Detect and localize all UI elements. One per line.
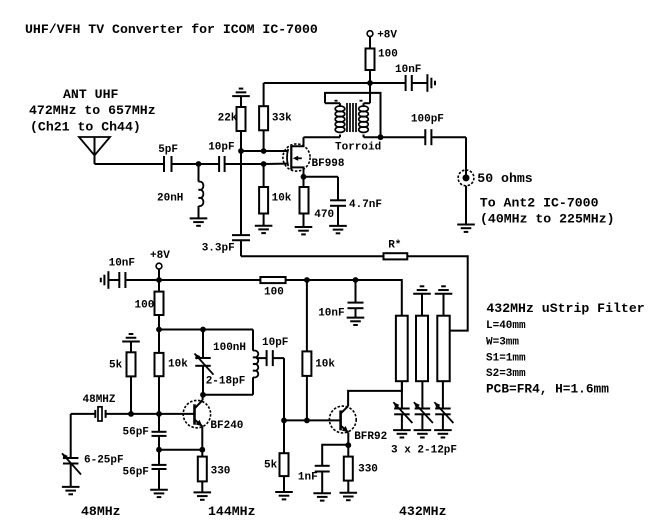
transformer secondary winding bbox=[359, 103, 370, 137]
svg-text:2-18pF: 2-18pF bbox=[206, 376, 246, 388]
wire rail to 10nF bbox=[370, 82, 406, 84]
wire R* to filter bbox=[407, 256, 467, 330]
label 144MHz bottom bbox=[208, 504, 255, 519]
svg-text:10nF: 10nF bbox=[395, 64, 421, 76]
resistor 10k osc bbox=[155, 330, 189, 414]
label 48MHz bottom bbox=[81, 504, 121, 519]
label PCB=FR4 H=1.6mm bbox=[486, 381, 609, 396]
label Torroid bbox=[335, 142, 381, 154]
svg-text:4.7nF: 4.7nF bbox=[349, 199, 382, 211]
svg-text:20nH: 20nH bbox=[157, 193, 183, 205]
ground below 330 mixer bbox=[340, 493, 358, 500]
node 10pF/base mixer bbox=[281, 418, 287, 424]
wire 10nF to +8V node bbox=[125, 279, 159, 281]
resistor R* bbox=[384, 240, 408, 260]
wire 3.3pF to R* bbox=[241, 240, 384, 256]
wire connector to ground bbox=[465, 186, 467, 225]
svg-text:6-25pF: 6-25pF bbox=[84, 455, 124, 467]
svg-text:(40MHz to 225MHz): (40MHz to 225MHz) bbox=[480, 212, 615, 227]
wire osc bottom row bbox=[203, 394, 253, 396]
resistor 100 horizontal bbox=[260, 277, 285, 299]
svg-text:1nF: 1nF bbox=[298, 472, 318, 484]
svg-text:BF998: BF998 bbox=[312, 158, 345, 170]
terminal +8V stage1 bbox=[367, 30, 397, 49]
resistor 330 mixer bbox=[344, 445, 378, 493]
transistor Q1 BF240 bbox=[183, 395, 210, 450]
resistor 10k stage1 bbox=[259, 187, 292, 226]
connector 50 ohms bbox=[458, 170, 533, 186]
wire 4.7nF to ground bbox=[337, 206, 339, 226]
node 56pF junction bbox=[156, 447, 162, 453]
capacitor 10nF mixer bbox=[318, 280, 363, 320]
label L=40mm bbox=[486, 320, 526, 332]
wire gate1 into MOSFET bbox=[264, 163, 288, 165]
inductor 20nH bbox=[157, 164, 203, 218]
capacitor 1nF bbox=[298, 466, 330, 493]
ground below 10nF mixer bbox=[347, 318, 365, 325]
label 3 x 2-12pF bbox=[391, 445, 457, 457]
svg-text:(Ch21 to Ch44): (Ch21 to Ch44) bbox=[30, 120, 141, 135]
wire 10pF to gate1 node bbox=[225, 163, 264, 165]
crystal 48MHZ bbox=[71, 394, 131, 421]
svg-text:48MHz: 48MHz bbox=[81, 504, 121, 519]
wire 22k node down to 3.3pF bbox=[240, 151, 242, 235]
svg-text:3.3pF: 3.3pF bbox=[202, 243, 235, 255]
label W=3mm bbox=[486, 336, 519, 348]
ground below 20nH bbox=[190, 218, 208, 225]
label BF998 bbox=[312, 158, 345, 170]
trimmer 2-12pF no3 bbox=[434, 402, 453, 430]
capacitor 10nF stage2 input bbox=[109, 258, 135, 289]
svg-text:432MHz: 432MHz bbox=[399, 504, 446, 519]
label 432MHz uStrip Filter bbox=[486, 301, 644, 316]
capacitor 56pF lower bbox=[123, 450, 167, 490]
capacitor 10pF osc out bbox=[262, 337, 288, 366]
wire 100pF to connector bbox=[431, 137, 466, 178]
svg-text:UHF/VFH TV Converter for ICOM: UHF/VFH TV Converter for ICOM IC-7000 bbox=[25, 22, 318, 37]
transformer phasing marks bbox=[335, 100, 363, 102]
svg-text:BFR92: BFR92 bbox=[354, 431, 387, 443]
svg-text:144MHz: 144MHz bbox=[208, 504, 255, 519]
wire top rail bbox=[264, 82, 370, 84]
label 432MHz bottom bbox=[399, 504, 446, 519]
resistor 5k mixer bbox=[264, 420, 289, 492]
transformer primary winding bbox=[335, 106, 345, 137]
wire osc top row bbox=[159, 329, 253, 331]
ground below 10k stage1 bbox=[255, 226, 273, 233]
antenna ANT bbox=[79, 137, 110, 164]
svg-text:R*: R* bbox=[388, 240, 401, 252]
wire emitter to 1nF bbox=[322, 445, 348, 466]
label To Ant2 IC-7000 bbox=[480, 195, 599, 210]
ground below 4.7nF bbox=[329, 226, 347, 233]
resistor 33k bbox=[259, 83, 292, 151]
node 22k/gate2 bbox=[238, 148, 244, 154]
svg-text:330: 330 bbox=[358, 464, 378, 476]
ground below 6-25pF bbox=[62, 487, 80, 494]
node osc/trimmer top bbox=[200, 327, 206, 333]
svg-text:100: 100 bbox=[264, 287, 284, 299]
label S2=3mm bbox=[486, 368, 526, 380]
svg-text:5k: 5k bbox=[109, 360, 123, 372]
wire 10nF to ground bbox=[412, 82, 428, 84]
svg-text:56pF: 56pF bbox=[123, 467, 149, 479]
svg-text:10pF: 10pF bbox=[208, 142, 234, 154]
node BF998 source bbox=[301, 174, 307, 180]
svg-text:10k: 10k bbox=[315, 359, 335, 371]
resistor 100 vertical bbox=[135, 280, 164, 330]
svg-text:10nF: 10nF bbox=[318, 308, 344, 320]
capacitor 5pF bbox=[158, 144, 178, 172]
capacitor 56pF upper bbox=[123, 414, 167, 450]
svg-text:470: 470 bbox=[314, 209, 334, 221]
node gate1 bbox=[261, 161, 267, 167]
wire element1 to trimmer1 bbox=[401, 381, 403, 408]
inductor 100nH bbox=[213, 330, 258, 395]
svg-text:L=40mm: L=40mm bbox=[486, 320, 526, 332]
label ANT UHF bbox=[63, 87, 118, 102]
wire crystal to trimmer bbox=[70, 414, 72, 458]
transformer bracket wire bbox=[325, 93, 381, 137]
wire element2 to trimmer2 bbox=[421, 381, 423, 408]
transformer primary lead top bbox=[325, 103, 340, 107]
ground below 50 ohms bbox=[457, 225, 475, 232]
svg-text:50 ohms: 50 ohms bbox=[477, 171, 532, 186]
svg-text:100nH: 100nH bbox=[213, 342, 246, 354]
label S1=1mm bbox=[486, 352, 526, 364]
node 33k/gate2 bbox=[261, 148, 267, 154]
svg-text:48MHZ: 48MHZ bbox=[83, 394, 116, 406]
svg-text:+8V: +8V bbox=[150, 250, 170, 262]
svg-text:10nF: 10nF bbox=[109, 258, 135, 270]
svg-text:330: 330 bbox=[211, 466, 231, 478]
wire 56pF junction to emitter bbox=[159, 449, 202, 451]
node +8V stage2 bbox=[156, 277, 162, 283]
wire ground to 10nF stage2 bbox=[108, 279, 119, 281]
svg-text:5pF: 5pF bbox=[158, 144, 178, 156]
title text bbox=[25, 22, 318, 37]
capacitor 3.3pF bbox=[202, 235, 250, 254]
node transformer output bbox=[378, 134, 384, 140]
microstrip element 1 bbox=[396, 316, 408, 382]
svg-text:S1=1mm: S1=1mm bbox=[486, 352, 526, 364]
capacitor 10pF gate1 bbox=[208, 142, 234, 173]
svg-text:432MHz uStrip Filter: 432MHz uStrip Filter bbox=[486, 301, 644, 316]
wire 33k node to 10k bbox=[263, 164, 265, 187]
wire 10pF to mixer base bbox=[273, 358, 284, 420]
wire coil tap to 10pF bbox=[256, 357, 267, 359]
node collector osc bbox=[200, 392, 206, 398]
ground below trimmer2 bbox=[414, 430, 432, 437]
svg-text:BF240: BF240 bbox=[210, 420, 243, 432]
capacitor 4.7nF bbox=[330, 199, 382, 211]
svg-text:PCB=FR4, H=1.6mm: PCB=FR4, H=1.6mm bbox=[486, 381, 609, 396]
trimmer 6-25pF bbox=[62, 453, 124, 487]
svg-text:100pF: 100pF bbox=[411, 114, 444, 126]
node osc top rail bbox=[156, 327, 162, 333]
resistor 470 bbox=[300, 177, 335, 227]
ground left of 10nF stage2 bbox=[101, 271, 109, 289]
svg-text:10k: 10k bbox=[272, 193, 292, 205]
trimmer 2-12pF no2 bbox=[414, 402, 433, 430]
wire antenna to C 5pF bbox=[95, 163, 165, 165]
wire rail stage2 right bbox=[307, 279, 356, 281]
label 472MHz to 657MHz bbox=[29, 103, 156, 118]
capacitor 100pF bbox=[411, 114, 444, 146]
terminal +8V stage2 bbox=[150, 250, 170, 280]
wire rail stage2 mid bbox=[286, 279, 307, 281]
node 5k/base bbox=[128, 411, 134, 417]
ground above element 3 bbox=[435, 286, 453, 315]
svg-text:ANT UHF: ANT UHF bbox=[63, 87, 118, 102]
svg-text:To Ant2 IC-7000: To Ant2 IC-7000 bbox=[480, 195, 599, 210]
microstrip element 3 bbox=[437, 316, 449, 382]
label BF240 bbox=[210, 420, 243, 432]
ground below 5k mixer bbox=[275, 492, 293, 499]
capacitor 10nF stage1 bbox=[395, 64, 421, 91]
ground below 330 osc bbox=[194, 492, 212, 499]
trimmer 2-18pF bbox=[195, 330, 246, 395]
node rail/10k mixer bbox=[304, 277, 310, 283]
svg-text:Torroid: Torroid bbox=[335, 142, 381, 154]
wire 5pF to node bbox=[172, 163, 199, 165]
svg-text:100: 100 bbox=[378, 49, 398, 61]
svg-text:33k: 33k bbox=[272, 113, 292, 125]
svg-text:+8V: +8V bbox=[377, 30, 397, 42]
wire osc base row bbox=[131, 413, 194, 415]
wire mixer base row bbox=[284, 419, 340, 421]
ground below trimmer3 bbox=[434, 430, 452, 437]
wire rail stage2 left bbox=[159, 279, 260, 281]
svg-text:56pF: 56pF bbox=[123, 427, 149, 439]
trimmer 2-12pF no1 bbox=[393, 402, 412, 430]
label (Ch21 to Ch44) bbox=[30, 120, 141, 135]
svg-text:W=3mm: W=3mm bbox=[486, 336, 519, 348]
node +8V rail stage1 bbox=[367, 80, 373, 86]
svg-text:5k: 5k bbox=[264, 460, 278, 472]
node emitter BFR92 bbox=[345, 442, 351, 448]
svg-text:3 x 2-12pF: 3 x 2-12pF bbox=[391, 445, 457, 457]
svg-text:S2=3mm: S2=3mm bbox=[486, 368, 526, 380]
node 10k/base bbox=[156, 411, 162, 417]
node 10k/base mixer bbox=[304, 418, 310, 424]
ground above 5k osc bbox=[122, 334, 140, 352]
wire element3 to trimmer3 bbox=[442, 381, 444, 408]
wire node to C 10pF bbox=[199, 163, 220, 165]
resistor 22k bbox=[218, 107, 246, 151]
label BFR92 bbox=[354, 431, 387, 443]
ground below 56pF lower bbox=[150, 490, 168, 497]
svg-text:100: 100 bbox=[135, 300, 155, 312]
wire gate2 row bbox=[241, 150, 288, 152]
ground below 470 bbox=[295, 227, 313, 234]
svg-text:472MHz to 657MHz: 472MHz to 657MHz bbox=[29, 103, 156, 118]
ground above element 2 bbox=[413, 286, 431, 315]
svg-text:22k: 22k bbox=[218, 113, 238, 125]
svg-text:10k: 10k bbox=[168, 359, 188, 371]
transistor Q2 BFR92 bbox=[329, 381, 402, 445]
node emitter BF240 bbox=[199, 447, 205, 453]
transformer core bbox=[347, 103, 356, 132]
node junction ant/20nH bbox=[196, 161, 202, 167]
transistor U1 BF998 bbox=[283, 137, 310, 177]
wire output node to 100pF bbox=[381, 136, 426, 138]
resistor 100 stage1 bbox=[366, 49, 398, 84]
microstrip element 2 bbox=[416, 316, 428, 382]
resistor 330 osc bbox=[198, 450, 231, 493]
label (40MHz to 225MHz) bbox=[480, 212, 615, 227]
node rail/10nF mixer bbox=[353, 277, 359, 283]
ground above 22k bbox=[232, 89, 250, 107]
ground below 1nF bbox=[313, 493, 331, 500]
ground right of 10nF stage1 bbox=[427, 74, 435, 92]
wire +8V node to transformer bbox=[369, 83, 371, 103]
ground below trimmer1 bbox=[393, 430, 411, 437]
resistor 5k osc bbox=[109, 352, 136, 414]
wire secondary to output node bbox=[364, 136, 381, 138]
resistor 10k mixer bbox=[302, 280, 335, 420]
wire source to 4.7nF bbox=[304, 177, 339, 201]
svg-text:10pF: 10pF bbox=[262, 337, 288, 349]
wire drain to primary bbox=[304, 136, 341, 138]
wire rail to filter element1 bbox=[356, 280, 402, 316]
